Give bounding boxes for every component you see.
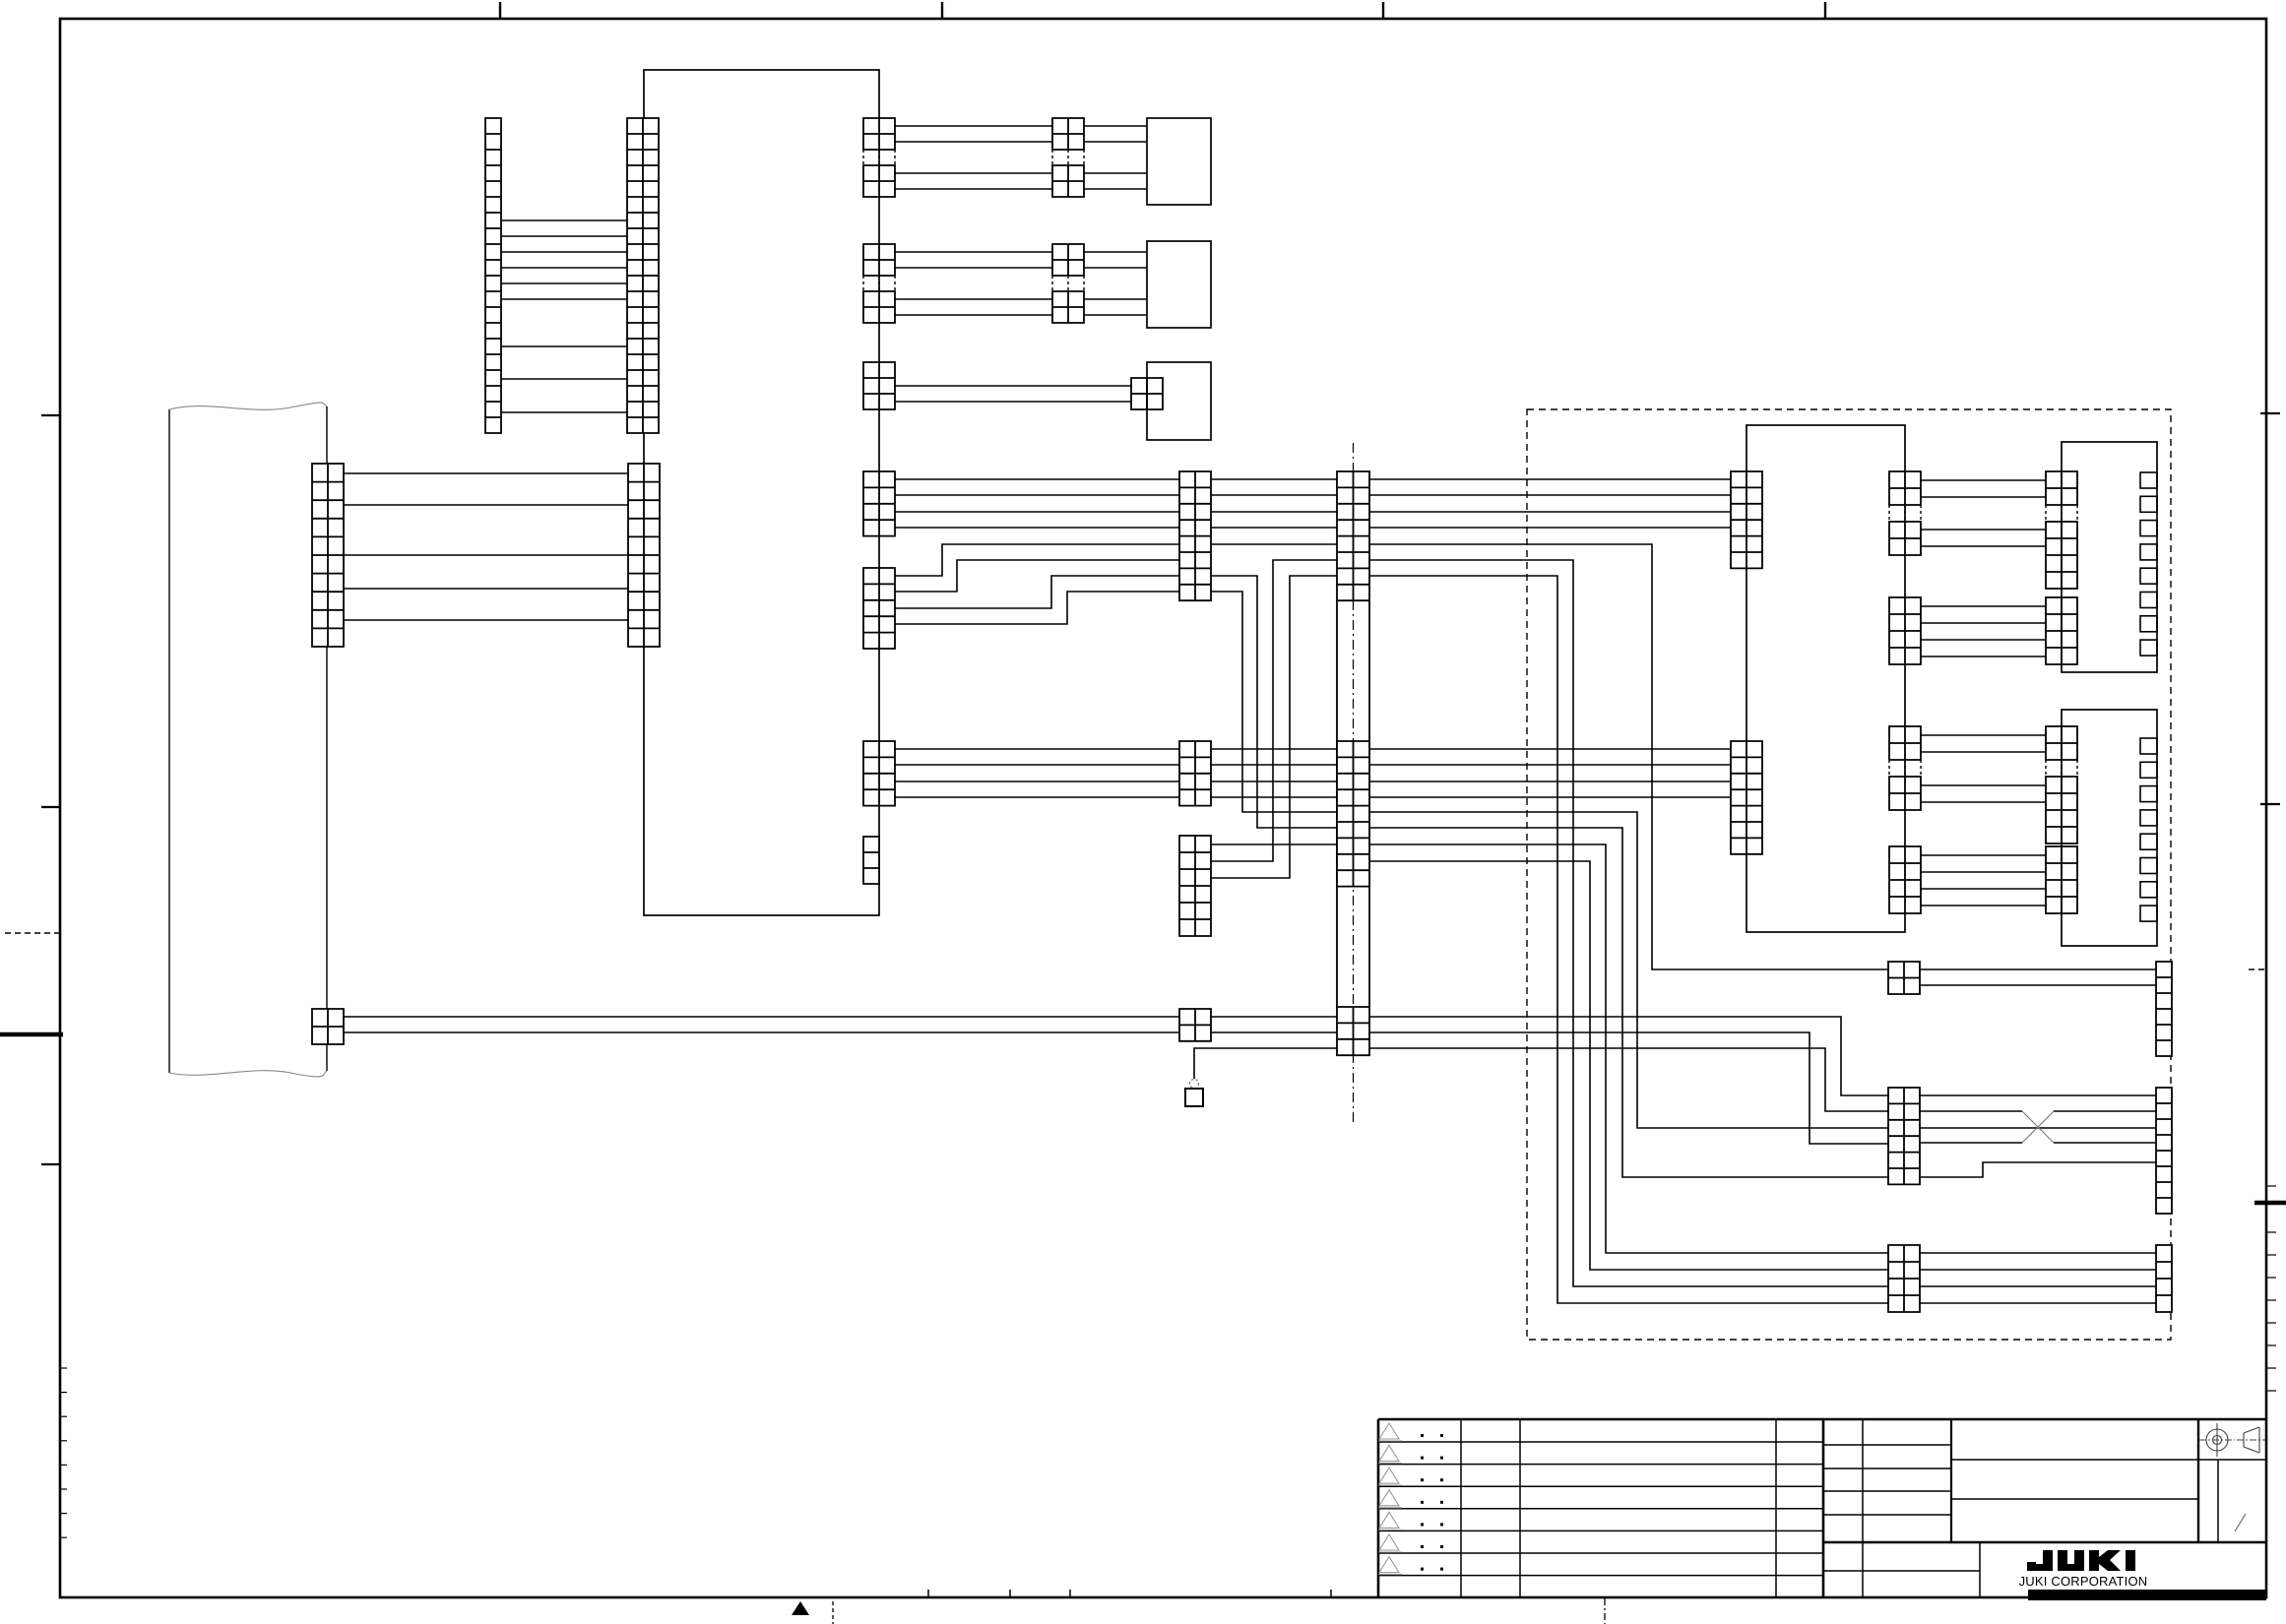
connector CN1 (1x20 header) bbox=[485, 118, 501, 433]
wire CN17-CN19 #1 bbox=[1369, 478, 1731, 480]
wire CN11-CN13 #3 bbox=[895, 511, 1179, 513]
wire CN21-CN22 #1 bbox=[1921, 479, 2046, 481]
revision triangle 6 bbox=[1378, 1534, 1402, 1552]
wire CN13-CN17 #3 bbox=[1211, 511, 1337, 513]
wire CN23-CN24 #1 bbox=[1921, 605, 2046, 607]
wire CN15-CN17 #2 bbox=[1211, 764, 1337, 766]
top border zone tick 1 bbox=[499, 2, 501, 19]
wire CN12 staircase #3 bbox=[895, 576, 1179, 608]
wire CN30-CN17 #1 bbox=[1211, 1016, 1337, 1018]
block D pin tab 2 bbox=[2140, 496, 2157, 512]
right border small tick 5 bbox=[2266, 1299, 2276, 1301]
wire CN7-CN8 #3 bbox=[895, 298, 1052, 300]
right border small tick 1 bbox=[2266, 1185, 2276, 1187]
wire long pair #2 bbox=[344, 1031, 1179, 1033]
wire CN23-CN24 #2 bbox=[1921, 622, 2046, 624]
wire CN18 row3 riser bbox=[1211, 576, 1337, 878]
left torn block wavy bottom edge bbox=[169, 1071, 327, 1077]
block D pin tab 6 bbox=[2140, 593, 2157, 608]
left border small tick 6 bbox=[60, 1488, 67, 1490]
wire CN32-S2 row1 bbox=[1920, 1094, 2156, 1096]
wire CN25-CN26 #1 bbox=[1921, 734, 2046, 736]
connector CN22 (block D left, gap type +2) bbox=[2046, 471, 2077, 505]
top border zone tick 3 bbox=[1382, 2, 1384, 19]
connector CN18 (2x6 mid bus low) bbox=[1179, 836, 1211, 936]
block E pin tab 5 bbox=[2140, 834, 2157, 849]
wire ladder CN1-CN2 #5 bbox=[501, 282, 627, 284]
connector CN11 (block A right 2x4) bbox=[863, 471, 895, 536]
revision triangle 1 bbox=[1378, 1423, 1402, 1441]
title right divider v4 bbox=[2217, 1460, 2219, 1542]
wire ladder CN1-CN2 #6 bbox=[501, 298, 627, 300]
revision table divider v1 bbox=[1460, 1419, 1462, 1597]
projection symbol cone bbox=[2237, 1427, 2265, 1453]
bottom border index triangle bbox=[792, 1601, 809, 1615]
left torn block right edge bbox=[326, 406, 328, 1071]
wire CN11-CN13 #1 bbox=[895, 478, 1179, 480]
wire CN25-CN26 #4 bbox=[1921, 801, 2046, 803]
wire CN17-CN20 #3 bbox=[1369, 781, 1731, 782]
projection symbol circle bbox=[2199, 1423, 2235, 1457]
shield terminal circle bbox=[1190, 1080, 1199, 1089]
wire CN17-CN20 #2 bbox=[1369, 764, 1731, 766]
wire crossover upper right bbox=[2054, 1110, 2156, 1112]
connector CN27 (block B right 2x4 low) bbox=[1889, 846, 1921, 913]
connector CN8 (2x2+2 with gap) bbox=[1052, 244, 1084, 276]
wire CN3-CN4 #5 bbox=[344, 619, 628, 621]
revision table divider v3 bbox=[1775, 1419, 1777, 1597]
wire CN8-box2 #1 bbox=[1084, 251, 1147, 253]
svg-text:JUKI CORPORATION: JUKI CORPORATION bbox=[2019, 1574, 2148, 1589]
wire shield drop bbox=[1194, 1048, 1337, 1079]
revision date dots 6 bbox=[1421, 1545, 1424, 1548]
title lower divider bbox=[1979, 1542, 1981, 1597]
connector CN31 (2x2) bbox=[1888, 962, 1920, 994]
block E pin tab 8 bbox=[2140, 906, 2157, 921]
connector CN26 (block E left, gap type +2) bbox=[2046, 726, 2077, 760]
wire CN17-CN20 #4 bbox=[1369, 796, 1731, 798]
wire CN12 staircase #1 bbox=[895, 544, 1179, 576]
title mid divider v2 bbox=[1950, 1419, 1952, 1542]
revision triangle 4 bbox=[1378, 1490, 1402, 1508]
block E pin tab 4 bbox=[2140, 810, 2157, 826]
revision table row line 7 bbox=[1378, 1575, 1823, 1577]
wire CN14-CN15 #3 bbox=[895, 781, 1179, 782]
revision date dots 3 bbox=[1421, 1478, 1424, 1481]
wire CN3-CN4 #1 bbox=[344, 472, 628, 474]
wire CN3-CN4 #4 bbox=[344, 588, 628, 590]
right border tick 2 bbox=[2260, 803, 2280, 805]
wire CN17-CN19 #2 bbox=[1369, 494, 1731, 496]
left torn block wavy top edge bbox=[169, 403, 327, 409]
wire CN14-CN15 #2 bbox=[895, 764, 1179, 766]
connector CN13 (2x8 mid bus) bbox=[1179, 471, 1211, 600]
wire crossover lower right bbox=[2054, 1142, 2156, 1144]
title mid row line 2 bbox=[1823, 1468, 1951, 1469]
wire CN5-CN6 #1 bbox=[895, 125, 1052, 127]
title lower row line bbox=[1823, 1570, 1980, 1572]
title block black bar bbox=[2028, 1590, 2266, 1600]
wire CN17 out row1 bbox=[1369, 1017, 1888, 1095]
wire CN3-CN4 #3 bbox=[344, 554, 628, 556]
wire CN18 row2 riser bbox=[1211, 560, 1337, 861]
wire CN5-CN6 #3 bbox=[895, 172, 1052, 174]
connector CN17 body left edge bbox=[1336, 600, 1338, 1007]
wire CN23-CN24 #4 bbox=[1921, 656, 2046, 657]
wire CN8-box2 #4 bbox=[1084, 314, 1147, 316]
wire CN8-box2 #3 bbox=[1084, 298, 1147, 300]
wire CN15-CN17 #3 bbox=[1211, 781, 1337, 782]
connector CN16 (1x3 stub on block A) bbox=[863, 837, 879, 884]
wire CN33-S3 #3 bbox=[1920, 1285, 2156, 1287]
left border dashed tick bbox=[5, 932, 60, 934]
connector S3 (1x4 on enclosure edge) bbox=[2156, 1245, 2172, 1312]
connector CN28 (block E left 2x4) bbox=[2046, 846, 2077, 913]
wire CN15-CN17 #4 bbox=[1211, 796, 1337, 798]
right border dashed tick bbox=[2249, 968, 2266, 970]
connector CN5 (block A right, 2x2+2 with gap) bbox=[863, 118, 895, 150]
right border small tick 8 bbox=[2266, 1367, 2276, 1369]
wire CN17-CN19 #3 bbox=[1369, 511, 1731, 513]
revision table row line 2 bbox=[1378, 1464, 1823, 1466]
wire CN5-CN6 #4 bbox=[895, 188, 1052, 190]
connector CN14 (block A right 2x4 lower) bbox=[863, 741, 895, 806]
connector CN12 (block A right 2x5) bbox=[863, 568, 895, 649]
left border tick 2 bbox=[41, 806, 61, 808]
connector CN9 (block A right 2x3) bbox=[863, 362, 895, 409]
block E pin tab 2 bbox=[2140, 762, 2157, 778]
wire CN32 staircase bbox=[1920, 1162, 2156, 1177]
left torn block (partial board) left edge bbox=[168, 409, 170, 1073]
wire CN13-CN17 #5 bbox=[1211, 543, 1337, 545]
wire ladder CN1-CN2 #3 bbox=[501, 251, 627, 253]
bus wire drop V5 bbox=[1369, 828, 1888, 1177]
left border small tick 2 bbox=[60, 1392, 67, 1394]
bus wire drop V6 bbox=[1369, 844, 1888, 1253]
block A main board outline bbox=[644, 70, 879, 915]
wire CN13 row7 drop bbox=[1211, 576, 1337, 828]
right border tick 1 bbox=[2260, 412, 2280, 414]
block E pin tab 1 bbox=[2140, 738, 2157, 754]
wire ladder CN1-CN2 #2 bbox=[501, 235, 627, 237]
connector CN33 (2x4) bbox=[1888, 1245, 1920, 1312]
revision table row line 3 bbox=[1378, 1485, 1823, 1487]
connector CN17 middle section (2x9) bbox=[1337, 741, 1369, 887]
wire CN17-CN19 #4 bbox=[1369, 527, 1731, 529]
connector CN7 (block A right, 2x2+2 with gap) bbox=[863, 244, 895, 276]
bus wire drop V2 bbox=[1369, 560, 1888, 1286]
wire CN33-S3 #2 bbox=[1920, 1269, 2156, 1271]
wire CN7-CN8 #2 bbox=[895, 267, 1052, 269]
block B board outline bbox=[1746, 425, 1905, 932]
revision triangle 5 bbox=[1378, 1512, 1402, 1530]
shield terminal square bbox=[1185, 1089, 1203, 1106]
revision table row line 1 bbox=[1378, 1441, 1823, 1443]
wire CN13-CN17 #4 bbox=[1211, 527, 1337, 529]
connector CN6 (2x2+2 with gap) bbox=[1052, 118, 1084, 150]
connector CN25 (block B right, gap type lower) bbox=[1889, 726, 1921, 760]
connector CN4 (2x10 on block A left edge) bbox=[628, 464, 660, 647]
wire CN6-box1 #2 bbox=[1084, 141, 1147, 143]
right border thick tick bbox=[2254, 1201, 2286, 1206]
drawing number slash bbox=[2235, 1514, 2246, 1531]
wire CN21-CN22 #2 bbox=[1921, 496, 2046, 498]
wire CN13 row8 drop bbox=[1211, 592, 1337, 812]
connector CN30 (2x2 mid bus) bbox=[1179, 1009, 1211, 1041]
connector CN17 body right edge bbox=[1368, 600, 1370, 1007]
box device 3 bbox=[1147, 362, 1211, 440]
left border small tick 4 bbox=[60, 1440, 67, 1442]
left border small tick 3 bbox=[60, 1415, 67, 1417]
bus wire drop V4 bbox=[1369, 812, 1888, 1128]
wire CN3-CN4 #2 bbox=[344, 504, 628, 506]
wire CN23-CN24 #3 bbox=[1921, 639, 2046, 641]
block E outline bbox=[2062, 710, 2157, 946]
bus wire drop V7 bbox=[1369, 861, 1888, 1270]
connector S2 (1x8 on enclosure edge) bbox=[2156, 1088, 2172, 1214]
connector CN17 upper section (2x8) bbox=[1337, 471, 1369, 600]
right border small tick 3 bbox=[2266, 1254, 2276, 1256]
block D pin tab 4 bbox=[2140, 544, 2157, 560]
connector CN2 (2x20 edge connector on block A) bbox=[627, 118, 659, 433]
wire CN13-CN17 #2 bbox=[1211, 494, 1337, 496]
block D pin tab 1 bbox=[2140, 472, 2157, 488]
block E pin tab 6 bbox=[2140, 858, 2157, 874]
connector CN23 (block B right 2x4) bbox=[1889, 597, 1921, 664]
wire CN12 staircase #4 bbox=[895, 592, 1179, 624]
wire CN11-CN13 #2 bbox=[895, 494, 1179, 496]
wire CN27-CN28 #4 bbox=[1921, 905, 2046, 906]
top border zone tick 2 bbox=[941, 2, 943, 19]
wire CN25-CN26 #2 bbox=[1921, 751, 2046, 753]
connector CN29 (2x2 on torn block low) bbox=[312, 1009, 344, 1044]
wire CN8-box2 #2 bbox=[1084, 267, 1147, 269]
connector CN15 (2x4 mid bus lower) bbox=[1179, 741, 1211, 806]
connector CN19 (block B left upper 2x6) bbox=[1731, 471, 1762, 568]
wire CN17 out row2 bbox=[1369, 1032, 1888, 1144]
wire crossover lower bbox=[1920, 1142, 2022, 1144]
bottom border dashed tick bbox=[832, 1601, 834, 1624]
wire CN33-S3 #1 bbox=[1920, 1252, 2156, 1254]
wire ladder CN1-CN2 #7 bbox=[501, 345, 627, 347]
wire CN15-CN17 #1 bbox=[1211, 748, 1337, 750]
title right row line 1 bbox=[1951, 1459, 2266, 1461]
block D outline bbox=[2062, 442, 2157, 672]
wire CN17-CN20 #1 bbox=[1369, 748, 1731, 750]
title thick row line bbox=[1823, 1541, 2266, 1544]
connector CN3 (2x10 on torn block) bbox=[312, 464, 344, 647]
wire CN7-CN8 #1 bbox=[895, 251, 1052, 253]
wire crossover upper bbox=[1920, 1110, 2022, 1112]
connector CN17 lower section (2x3) bbox=[1337, 1007, 1369, 1055]
wire CN12 staircase #2 bbox=[895, 560, 1179, 592]
wire CN9-CN10 #2 bbox=[895, 401, 1131, 403]
left border small tick 1 bbox=[60, 1367, 67, 1369]
box device 2 bbox=[1147, 241, 1211, 328]
bus wire drop V3 bbox=[1369, 576, 1888, 1303]
connector CN32 (2x6) bbox=[1888, 1088, 1920, 1184]
box device 1 bbox=[1147, 118, 1211, 205]
wire ladder CN1-CN2 #1 bbox=[501, 219, 627, 221]
bottom border centre dash-dot bbox=[1604, 1598, 1606, 1624]
revision date dots 4 bbox=[1421, 1501, 1424, 1504]
right border small tick 7 bbox=[2266, 1344, 2276, 1346]
revision date dots 5 bbox=[1421, 1523, 1424, 1526]
revision table row line 6 bbox=[1378, 1552, 1823, 1554]
revision triangle 3 bbox=[1378, 1468, 1402, 1485]
revision date dots 7 bbox=[1421, 1568, 1424, 1571]
wire CN17 out row3 bbox=[1369, 1048, 1888, 1111]
title right divider v3 bbox=[2197, 1419, 2199, 1542]
block E pin tab 3 bbox=[2140, 786, 2157, 802]
block D pin tab 8 bbox=[2140, 640, 2157, 656]
wire CN6-box1 #3 bbox=[1084, 172, 1147, 174]
wire CN6-box1 #1 bbox=[1084, 125, 1147, 127]
title mid row line 4 bbox=[1823, 1514, 1951, 1516]
revision table row line 4 bbox=[1378, 1508, 1823, 1510]
connector CN24 (block D left 2x4) bbox=[2046, 597, 2077, 664]
block E pin tab 7 bbox=[2140, 882, 2157, 898]
dashed enclosure box bbox=[1527, 409, 2171, 1340]
title block thick divider bbox=[1822, 1419, 1825, 1597]
wire CN31-S1 #2 bbox=[1920, 984, 2156, 986]
wire CN25-CN26 #3 bbox=[1921, 784, 2046, 786]
title mid row line 3 bbox=[1823, 1490, 1951, 1492]
bottom border inner tick 1 bbox=[927, 1590, 929, 1597]
wire CN30-CN17 #2 bbox=[1211, 1031, 1337, 1033]
title mid divider v1 bbox=[1862, 1419, 1864, 1597]
block D pin tab 5 bbox=[2140, 568, 2157, 584]
connector CN10 (2x2 on box3) bbox=[1131, 378, 1163, 409]
bus wire drop V1 bbox=[1369, 544, 1888, 969]
wire CN27-CN28 #3 bbox=[1921, 888, 2046, 890]
left border small tick 5 bbox=[60, 1464, 67, 1466]
wire CN7-CN8 #4 bbox=[895, 314, 1052, 316]
left border tick 1 bbox=[41, 414, 61, 416]
wire CN27-CN28 #2 bbox=[1921, 871, 2046, 873]
left border tick 3 bbox=[41, 1163, 61, 1165]
wire CN21-CN22 #4 bbox=[1921, 545, 2046, 547]
wire CN14-CN15 #1 bbox=[895, 748, 1179, 750]
revision triangle 7 bbox=[1378, 1557, 1402, 1575]
revision date dots 1 bbox=[1421, 1434, 1424, 1437]
bottom border inner tick 3 bbox=[1069, 1590, 1071, 1597]
connector CN17 centreline dash-dot bbox=[1353, 443, 1355, 1122]
JUKI logo bbox=[2027, 1550, 2135, 1571]
block D pin tab 7 bbox=[2140, 616, 2157, 632]
left border small tick 7 bbox=[60, 1513, 67, 1515]
title mid row line 1 bbox=[1823, 1444, 1951, 1446]
connector CN21 (block B right, gap type) bbox=[1889, 471, 1921, 505]
wire CN5-CN6 #2 bbox=[895, 141, 1052, 143]
wire CN32-S2 row3 bbox=[1920, 1127, 2156, 1129]
wire crossover diag 2 bbox=[2022, 1111, 2054, 1143]
title block top edge bbox=[1378, 1418, 2266, 1421]
bottom border inner tick 4 bbox=[1330, 1590, 1332, 1597]
bottom border inner tick 2 bbox=[1009, 1590, 1011, 1597]
right border small tick 9 bbox=[2266, 1390, 2276, 1392]
revision table divider v2 bbox=[1519, 1419, 1521, 1597]
title right row line 2 bbox=[1951, 1498, 2198, 1500]
connector CN20 (block B left lower 2x7) bbox=[1731, 741, 1762, 854]
wire CN27-CN28 #1 bbox=[1921, 854, 2046, 856]
top border zone tick 4 bbox=[1824, 2, 1826, 19]
connector S1 (1x6 on enclosure edge) bbox=[2156, 962, 2172, 1056]
block D pin tab 3 bbox=[2140, 521, 2157, 536]
wire CN9-CN10 #1 bbox=[895, 385, 1131, 387]
wire CN6-box1 #4 bbox=[1084, 188, 1147, 190]
right border small tick 2 bbox=[2266, 1231, 2276, 1233]
wire ladder CN1-CN2 #8 bbox=[501, 378, 627, 380]
right border small tick 6 bbox=[2266, 1322, 2276, 1324]
wire ladder CN1-CN2 #9 bbox=[501, 411, 627, 413]
wire CN21-CN22 #3 bbox=[1921, 529, 2046, 531]
wire CN18 row1 bbox=[1211, 843, 1337, 845]
wire CN31-S1 #1 bbox=[1920, 968, 2156, 970]
wire CN14-CN15 #4 bbox=[895, 796, 1179, 798]
wire CN33-S3 #4 bbox=[1920, 1302, 2156, 1304]
wire ladder CN1-CN2 #4 bbox=[501, 267, 627, 269]
revision table left edge bbox=[1377, 1419, 1380, 1597]
right border small tick 4 bbox=[2266, 1277, 2276, 1279]
wire CN11-CN13 #4 bbox=[895, 527, 1179, 529]
wire long pair #1 bbox=[344, 1016, 1179, 1018]
wire crossover diag 1 bbox=[2022, 1111, 2054, 1143]
left border small tick 8 bbox=[60, 1536, 67, 1538]
wire CN13-CN17 #1 bbox=[1211, 478, 1337, 480]
revision triangle 2 bbox=[1378, 1446, 1402, 1464]
revision table row line 5 bbox=[1378, 1530, 1823, 1531]
left border thick tick bbox=[0, 1032, 63, 1037]
revision date dots 2 bbox=[1421, 1457, 1424, 1460]
